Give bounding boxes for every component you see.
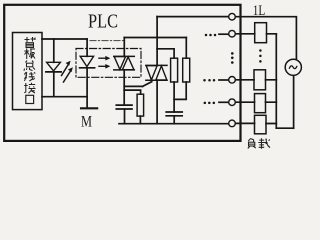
- load L3: [255, 94, 266, 113]
- PLC module box: [4, 5, 240, 141]
- wire node to gate: [124, 85, 142, 87]
- resistor Ra: [171, 58, 178, 82]
- resistor Rb: [183, 58, 190, 82]
- wire W1 top from interface box: [42, 38, 87, 40]
- load row5 wire: [235, 122, 276, 124]
- svg-text:1L: 1L: [253, 3, 265, 19]
- load row4 wires: [235, 101, 276, 103]
- wire M stub: [86, 97, 88, 108]
- dots row terminal 3: [203, 79, 206, 82]
- opto light arrows: [99, 58, 106, 66]
- backplane bus interface box: [13, 33, 43, 110]
- diode D1 indicator LED: [46, 62, 61, 72]
- capacitor C1 bottom lead: [124, 109, 126, 124]
- optocoupler U1 dash-dot box: [76, 49, 141, 78]
- AC source lead bottom: [293, 75, 295, 128]
- svg-text:M: M: [81, 113, 92, 130]
- char 背: [25, 37, 36, 48]
- wire A to terminal 1: [157, 16, 229, 18]
- svg-text:PLC: PLC: [88, 11, 118, 33]
- dots row terminal 2: [205, 34, 208, 37]
- char 接: [24, 83, 35, 93]
- bottom common wire to terminal 5: [119, 123, 229, 125]
- load row2 wires: [235, 33, 276, 35]
- load L4: [255, 115, 267, 134]
- continuation dots: [203, 34, 261, 104]
- dots column PLC edge: [231, 52, 234, 55]
- char 线: [24, 72, 35, 81]
- vertical CJK text 背板总线接口: [24, 37, 36, 104]
- wire W2 bottom from interface box: [42, 96, 87, 98]
- char 载: [258, 138, 270, 149]
- stray dash-dot segment: [90, 40, 123, 42]
- wire LED1 branch: [53, 39, 55, 97]
- photo-triac bottom lead down to capacitor C1: [123, 70, 125, 105]
- wire to resistor Ra: [157, 49, 174, 58]
- resistor Rb top lead: [185, 38, 187, 59]
- char 口: [26, 95, 34, 103]
- char 板: [24, 48, 35, 59]
- photo-triac Q1: [114, 56, 135, 70]
- main triac bottom lead: [156, 80, 158, 124]
- wire opto LED branch: [86, 39, 88, 97]
- terminal 2 stub wire: [219, 33, 229, 35]
- diode D2 opto emitter LED: [80, 56, 95, 68]
- LED D1 emission arrows: [62, 64, 71, 82]
- terminal 4 stub wire: [219, 101, 229, 103]
- terminal 2: [229, 30, 236, 37]
- wire B: [124, 37, 186, 39]
- resistor Ra bottom lead: [173, 82, 175, 112]
- terminal 5: [229, 120, 236, 127]
- load L2: [254, 70, 266, 90]
- capacitor C1: [116, 105, 132, 109]
- resistor Rs bottom lead: [139, 116, 141, 124]
- terminal 4: [229, 99, 236, 106]
- bottom load bus: [276, 127, 293, 129]
- resistor Rs: [137, 94, 144, 116]
- dots row terminal 4: [204, 102, 207, 105]
- terminal circles on PLC edge: [229, 13, 236, 126]
- terminal 3 stub wire: [219, 79, 229, 81]
- triac Q2 main: [146, 65, 167, 80]
- load bus vertical: [275, 34, 277, 128]
- triac Q2 gate lead: [143, 82, 152, 87]
- terminal 1: [229, 13, 236, 20]
- wire node to resistor Rs: [124, 90, 140, 94]
- AC source G1: [285, 59, 301, 75]
- load L1: [255, 23, 267, 43]
- scan artifact line bottom: [2, 148, 302, 150]
- load row3 wires: [235, 79, 276, 81]
- resistor Rb bottom jog: [174, 82, 186, 99]
- char 总: [24, 61, 35, 71]
- capacitor C2 snubber: [166, 112, 182, 116]
- photo-triac top lead: [123, 38, 125, 57]
- wire terminal1 to AC line: [235, 17, 296, 61]
- capacitor C2 bottom lead: [173, 116, 175, 124]
- main triac top lead: [156, 17, 158, 66]
- char 负: [248, 138, 256, 148]
- dots column load side: [259, 49, 262, 52]
- terminal 3: [229, 77, 236, 84]
- ground bar M: [81, 107, 97, 109]
- label 负载: [248, 138, 270, 149]
